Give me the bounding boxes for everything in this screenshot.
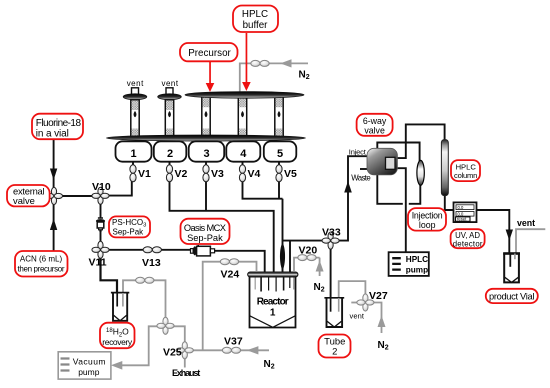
- svg-text:HPLC: HPLC: [406, 255, 428, 264]
- product vial: [503, 252, 520, 282]
- wire V4 stub from box 4: [242, 162, 244, 167]
- wire external valve to V10: [59, 195, 96, 197]
- label UV AD detector: [451, 229, 485, 248]
- wire product vial vent: [516, 229, 545, 253]
- svg-text:product Vial: product Vial: [489, 292, 534, 302]
- wire V25 to V37 to N2: [185, 349, 269, 351]
- valve junction A above V25: [157, 317, 174, 334]
- svg-text:Inject: Inject: [349, 148, 367, 157]
- wire N2 top supply to manifold: [240, 63, 308, 92]
- valve V24: [220, 259, 238, 265]
- valve V5: [276, 165, 282, 182]
- wire second drop tube into reactor: [289, 241, 291, 272]
- svg-text:V33: V33: [322, 227, 341, 239]
- wire V3 stub from box 3: [205, 162, 207, 167]
- position box 3: [189, 141, 225, 161]
- valve V25: [176, 342, 193, 359]
- arrowhead N2 top pointing left: [280, 59, 291, 67]
- label Oasis MCX Sep-Pak: [181, 219, 230, 244]
- label product Vial: [486, 289, 538, 303]
- top manifold ellipse: [185, 92, 304, 99]
- label Tube 2: [319, 335, 351, 358]
- svg-text:Oasis MCX: Oasis MCX: [184, 223, 226, 233]
- svg-text:recovery: recovery: [102, 337, 133, 347]
- wire detector to product vial: [477, 210, 510, 252]
- wire 6-way bottom port to injection loop bottom: [377, 175, 420, 204]
- svg-text:pump: pump: [406, 266, 428, 275]
- label 18H2O recovery: [100, 323, 135, 349]
- wire V27 vent stub: [351, 302, 359, 304]
- HPLC column: [441, 140, 448, 196]
- svg-text:vent: vent: [350, 312, 365, 321]
- 6-way valve body: [367, 148, 397, 175]
- valve V20: [298, 255, 316, 261]
- valve V2: [166, 165, 172, 182]
- Oasis MCX Sep-Pak cartridge: [191, 245, 215, 256]
- wire V24 line reactor to V25 junction: [203, 262, 257, 351]
- svg-text:valve: valve: [13, 195, 35, 206]
- wire V33 down into Tube 2: [330, 241, 332, 312]
- wire 6-way to HPLC pump: [397, 168, 406, 252]
- reagent column 3: [202, 97, 210, 138]
- injection loop: [417, 160, 424, 185]
- arrowhead to 6-way inject pointing up: [344, 181, 352, 193]
- svg-text:1: 1: [270, 308, 276, 319]
- position box 5: [264, 141, 297, 161]
- reactor dip tubes: [255, 277, 294, 292]
- Tube 2 vial: [324, 297, 344, 327]
- svg-text:Waste: Waste: [351, 174, 370, 183]
- wire junction A to vacuum pump: [116, 326, 161, 365]
- wire dip tube in product vial: [508, 252, 510, 267]
- svg-text:0.0: 0.0: [458, 205, 464, 210]
- svg-text:valve: valve: [364, 126, 385, 136]
- svg-text:column: column: [454, 171, 477, 180]
- reagent column 5: [275, 97, 283, 138]
- position box 1: [116, 141, 152, 161]
- svg-text:vent: vent: [162, 79, 179, 88]
- arrowhead N2 into V37 pointing left: [247, 346, 259, 354]
- reactor vessel body: [250, 277, 296, 328]
- valve V27: [357, 294, 374, 311]
- svg-text:Exhaust: Exhaust: [172, 368, 200, 378]
- svg-text:Sep-Pak: Sep-Pak: [113, 227, 145, 236]
- reagent column 4: [238, 97, 246, 138]
- wire merged V4/V5 down to reactor drop tube: [282, 199, 284, 272]
- label 6-way valve: [357, 114, 393, 136]
- label PS-HCO3 Sep-Pak: [109, 216, 150, 237]
- wire V11 down into recovery vial: [101, 254, 118, 307]
- svg-text:V2: V2: [175, 168, 188, 180]
- svg-text:loop: loop: [419, 220, 436, 230]
- wire ACN vial up to external valve: [53, 197, 55, 251]
- svg-text:HPLC: HPLC: [242, 9, 268, 20]
- label external valve: [7, 185, 50, 206]
- valve V37: [222, 347, 240, 353]
- wire waste stub: [360, 168, 367, 170]
- wire V1 stub from box 1: [132, 162, 134, 167]
- wire V10 to V1: [105, 181, 132, 196]
- vacuum pump box: [58, 352, 111, 379]
- svg-text:ACN (6 mL): ACN (6 mL): [20, 255, 63, 264]
- wire Tube2 to V27: [339, 281, 366, 312]
- wire 6-way right port to HPLC column: [396, 124, 445, 158]
- wire V27 N2 supply: [365, 303, 381, 334]
- UV AD detector unit: [454, 202, 477, 222]
- wire V25 exhaust: [184, 350, 186, 367]
- valve V33: [322, 232, 339, 249]
- position box 2: [154, 141, 187, 161]
- wire HPLC column to detector: [445, 195, 454, 210]
- label Injection loop: [408, 208, 446, 231]
- wire V11 to V13 to Oasis to reactor: [105, 250, 265, 272]
- bubble trap teardrop on reactor feed: [280, 243, 285, 271]
- red arrow Precursor to manifold: [209, 61, 211, 85]
- wire V5 to merge: [278, 181, 280, 199]
- valve V13: [143, 247, 161, 253]
- svg-text:5: 5: [277, 148, 283, 160]
- svg-text:vent: vent: [517, 218, 535, 228]
- reagent column 2: [158, 88, 182, 138]
- svg-text:in a vial: in a vial: [36, 129, 69, 140]
- arrowhead N2 into V27 line pointing up: [378, 316, 386, 328]
- svg-text:V1: V1: [138, 168, 151, 180]
- wire Sep-Pak to V11: [100, 231, 102, 245]
- svg-text:V25: V25: [163, 347, 182, 359]
- svg-text:V4: V4: [248, 168, 261, 180]
- arrowhead from ACN pointing up: [50, 219, 57, 231]
- svg-text:V10: V10: [92, 181, 111, 193]
- valve V10: [92, 187, 109, 204]
- svg-text:V13: V13: [142, 257, 161, 269]
- HPLC pump box: [389, 252, 429, 276]
- valve on N2 top line: [251, 60, 269, 66]
- svg-text:4: 4: [240, 148, 247, 160]
- wire through detector: [454, 209, 477, 211]
- 18H2O recovery vial: [111, 292, 129, 321]
- arrowhead into vacuum pump pointing left: [111, 361, 122, 370]
- svg-text:vent: vent: [127, 79, 144, 88]
- svg-text:Sep-Pak: Sep-Pak: [187, 233, 223, 243]
- wire 6-way top port to injection loop top: [377, 143, 419, 162]
- svg-text:V11: V11: [89, 257, 107, 269]
- arrowhead N2 into V20 line pointing up: [316, 260, 324, 271]
- svg-text:V24: V24: [221, 269, 240, 281]
- wire V5 stub from box 5: [278, 162, 280, 167]
- svg-text:reset: reset: [457, 217, 467, 222]
- svg-text:3: 3: [203, 148, 209, 160]
- valve V3: [203, 165, 209, 182]
- bottom manifold ellipse: [107, 135, 306, 141]
- svg-text:then precursor: then precursor: [18, 265, 65, 274]
- svg-text:detector: detector: [453, 239, 483, 248]
- label ACN (6 mL) then precursor: [15, 251, 68, 277]
- wire V20 line from reactor: [294, 258, 320, 276]
- svg-text:V5: V5: [284, 168, 297, 180]
- wire V3 tee into V2 line: [205, 181, 207, 211]
- svg-text:2: 2: [167, 148, 173, 160]
- svg-text:buffer: buffer: [243, 20, 269, 31]
- reagent column 1: [123, 88, 147, 138]
- svg-text:Fluorine-18: Fluorine-18: [36, 118, 82, 129]
- wire V10 down to PS-HCO3 Sep-Pak: [100, 200, 102, 219]
- wire junction A to V25: [171, 326, 185, 350]
- svg-text:V20: V20: [299, 245, 318, 257]
- wire V4 to merge: [243, 181, 283, 199]
- svg-text:pump: pump: [78, 367, 100, 377]
- svg-text:V37: V37: [224, 336, 243, 348]
- svg-text:Injection: Injection: [412, 211, 443, 221]
- valve V1: [130, 165, 136, 182]
- svg-text:Reactor: Reactor: [257, 297, 289, 308]
- label HPLC buffer: [233, 6, 278, 33]
- svg-text:2: 2: [332, 347, 337, 358]
- svg-text:Precursor: Precursor: [188, 48, 231, 59]
- valve V4: [239, 165, 245, 182]
- reactor lid: [248, 272, 298, 277]
- PS-HCO3 Sep-Pak cartridge: [96, 218, 105, 232]
- wire recovery vial to junction A: [123, 280, 166, 321]
- label Precursor: [180, 43, 238, 61]
- position box 4: [226, 141, 260, 161]
- label HPLC column: [451, 160, 480, 181]
- wire Fluorine-18 vial down to external valve: [53, 140, 55, 197]
- svg-text:1: 1: [130, 148, 136, 160]
- red arrow HPLC buffer to manifold: [246, 33, 248, 83]
- svg-text:V27: V27: [369, 290, 388, 302]
- svg-text:Vacuum: Vacuum: [73, 357, 106, 367]
- valve on recovery vial line: [136, 277, 154, 283]
- svg-text:6-way: 6-way: [363, 116, 387, 126]
- external valve symbol: [45, 187, 62, 204]
- wire V2 to reactor: [170, 181, 274, 272]
- label Fluorine-18 in a vial: [32, 114, 83, 140]
- arrowhead into product vial pointing down: [506, 230, 513, 241]
- wire reactor head to V33: [283, 156, 368, 240]
- valve V11: [92, 241, 109, 258]
- arrowhead from Fluorine-18 pointing down: [50, 169, 57, 181]
- svg-text:V3: V3: [211, 168, 224, 180]
- wire V2 stub from box 2: [169, 162, 171, 167]
